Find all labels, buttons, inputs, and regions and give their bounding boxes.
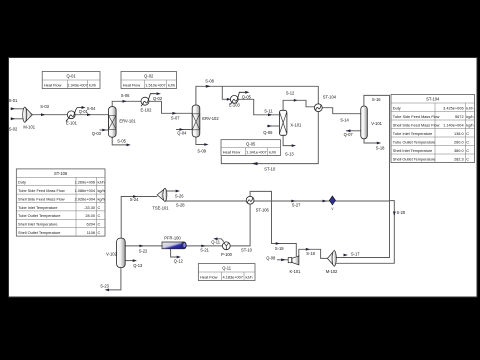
arrow on S-21 [201, 245, 205, 248]
arrow on S-11 [268, 113, 272, 116]
arrow on S-04 [87, 113, 91, 116]
wire S-01 [11, 108, 25, 110]
wire Q-06 into X-101 [267, 125, 280, 127]
wire S-23 V-102 bottom [109, 268, 121, 290]
svg-text:1.086e+004: 1.086e+004 [75, 189, 96, 193]
svg-text:1.341e+007: 1.341e+007 [246, 151, 266, 155]
svg-text:Q-05: Q-05 [242, 94, 252, 99]
svg-text:C: C [466, 149, 469, 153]
svg-text:Q-04: Q-04 [177, 130, 187, 135]
wire S-08 ERV-102 top to ST-104 [196, 86, 318, 105]
svg-text:V-101: V-101 [371, 121, 382, 126]
svg-text:ST-10: ST-10 [241, 247, 253, 252]
table Q-02 [121, 72, 177, 89]
svg-text:138.0: 138.0 [454, 132, 464, 136]
arrow on S-03 [41, 113, 45, 116]
svg-text:TSE-101: TSE-101 [152, 205, 169, 210]
svg-text:S-05: S-05 [117, 139, 126, 144]
heat exchanger E-101 [66, 108, 82, 126]
svg-text:PFR-100: PFR-100 [164, 236, 181, 241]
svg-text:Shell Outlet Temperature: Shell Outlet Temperature [393, 157, 435, 161]
svg-text:Q-03: Q-03 [92, 131, 102, 136]
svg-text:28.00: 28.00 [85, 214, 95, 218]
svg-text:X-101: X-101 [290, 122, 302, 127]
svg-text:S-12: S-12 [286, 90, 295, 95]
svg-text:S-27: S-27 [292, 203, 301, 208]
svg-text:6204: 6204 [86, 223, 95, 227]
svg-text:2.926e+004: 2.926e+004 [75, 197, 96, 201]
arrow S-05 head [127, 144, 131, 147]
svg-text:S-06: S-06 [121, 93, 130, 98]
arrow on S-17 [344, 254, 348, 257]
wire S-21 PFR to pump [186, 245, 222, 247]
svg-text:S-23: S-23 [100, 284, 109, 289]
svg-text:kg/h: kg/h [98, 197, 105, 201]
separator V-101 [361, 106, 383, 139]
wire S-20 branch to mixer [334, 201, 394, 264]
svg-text:S-26: S-26 [175, 194, 184, 199]
svg-text:Heat Flow: Heat Flow [123, 83, 141, 87]
svg-text:Heat Flow: Heat Flow [223, 151, 241, 155]
wire ST-10 ST-104 shell outlet [221, 112, 318, 164]
table ST-104 [391, 95, 475, 163]
svg-text:S-02: S-02 [9, 127, 18, 132]
arrow on S-24 [133, 195, 137, 198]
svg-text:S-08: S-08 [205, 78, 214, 83]
svg-text:S-18: S-18 [306, 251, 315, 256]
wire S-06 ERV-101 top to E-102 [112, 101, 141, 107]
arrow Q-13 head [133, 259, 137, 262]
wire S-02 [11, 118, 25, 120]
wire S-14 ST-104 to V-101 [322, 108, 361, 114]
svg-text:P-100: P-100 [221, 252, 233, 257]
svg-text:C: C [98, 223, 101, 227]
svg-text:V-102: V-102 [106, 251, 117, 256]
svg-text:Duty: Duty [18, 181, 26, 185]
svg-text:Q-12: Q-12 [174, 259, 184, 264]
wire S-11 E-103 to X-101 [238, 99, 279, 115]
wire S-07 E-102 to ERV-102 [149, 101, 192, 113]
wire S-05 ERV-101 bottom [112, 137, 127, 145]
svg-text:1106: 1106 [87, 231, 95, 235]
pump P-100 [221, 242, 233, 257]
svg-text:S-18: S-18 [376, 146, 385, 151]
svg-text:260.0: 260.0 [454, 140, 464, 144]
valve VLV diamond [329, 196, 335, 211]
svg-text:ERV-101: ERV-101 [119, 119, 136, 124]
arrow on S-19 [276, 242, 280, 245]
wire ST-10 pump to ST-106 bottom [230, 204, 250, 246]
svg-text:S-17: S-17 [351, 252, 360, 257]
vessel V-102 [106, 238, 125, 268]
svg-text:1.343e+007: 1.343e+007 [67, 83, 87, 87]
svg-text:S-20: S-20 [397, 210, 406, 215]
svg-text:Shell Side Feed Mass Flow: Shell Side Feed Mass Flow [18, 197, 65, 201]
svg-text:380.0: 380.0 [454, 149, 464, 153]
svg-text:Tube Inlet Temperature: Tube Inlet Temperature [18, 206, 58, 210]
svg-text:Tube Inlet Temperature: Tube Inlet Temperature [393, 132, 433, 136]
svg-text:Tube Outlet Temperature: Tube Outlet Temperature [393, 140, 436, 144]
wire Q-12 from PFR [171, 249, 177, 257]
arrow Q-04 head [180, 128, 184, 131]
svg-text:kJ/h: kJ/h [466, 106, 473, 110]
svg-text:Heat Flow: Heat Flow [200, 275, 218, 279]
svg-text:S-13: S-13 [285, 151, 294, 156]
svg-text:-33.30: -33.30 [84, 206, 95, 210]
column ERV-102 [192, 105, 219, 137]
arrow on S-06 [123, 100, 127, 103]
arrow Q-07 head [346, 129, 351, 132]
svg-text:kJ/h: kJ/h [89, 83, 96, 87]
wire S-18 V-101 bottom [364, 139, 377, 143]
svg-text:ST-106: ST-106 [54, 171, 68, 176]
svg-text:C: C [466, 140, 469, 144]
svg-text:S-01: S-01 [9, 98, 18, 103]
svg-text:Tube Side Feed Mass Flow: Tube Side Feed Mass Flow [393, 115, 440, 119]
table Q-01 [42, 72, 100, 89]
arrow Q-05 head [245, 91, 249, 94]
svg-text:Q-11: Q-11 [222, 266, 232, 271]
arrow Q-02 head [157, 92, 161, 95]
svg-text:S-16: S-16 [372, 97, 381, 102]
svg-text:282.3: 282.3 [454, 157, 464, 161]
svg-text:1.269e+006: 1.269e+006 [75, 181, 95, 185]
svg-text:S-07: S-07 [171, 115, 180, 120]
svg-text:S-11: S-11 [264, 109, 273, 114]
svg-text:K-101: K-101 [290, 269, 302, 274]
arrow ST-10 left head [252, 162, 258, 165]
mixer M-102 [326, 251, 338, 274]
wire E-103 feed stub [222, 86, 230, 99]
reactor X-101 [279, 110, 302, 135]
svg-text:ERV-102: ERV-102 [202, 116, 219, 121]
svg-text:kJ/h: kJ/h [168, 83, 175, 87]
svg-text:M-102: M-102 [326, 269, 338, 274]
svg-text:S-04: S-04 [87, 106, 96, 111]
svg-text:C: C [98, 214, 101, 218]
svg-text:S-24: S-24 [130, 197, 139, 202]
wire S-28 long line TEE-101 to right [165, 200, 390, 202]
wire S-22 V-102 to PFR [125, 245, 162, 247]
svg-text:Q-11: Q-11 [211, 240, 221, 245]
arrow Q-11 head [213, 237, 217, 240]
svg-text:1.510e+007: 1.510e+007 [145, 83, 165, 87]
svg-text:Shell Inlet Temperature: Shell Inlet Temperature [393, 149, 432, 153]
svg-text:E-101: E-101 [66, 121, 78, 126]
svg-text:Shell Outlet Temperature: Shell Outlet Temperature [18, 231, 60, 235]
svg-text:Heat Flow: Heat Flow [44, 83, 62, 87]
svg-text:Q-02: Q-02 [153, 96, 163, 101]
svg-text:4.183e+007: 4.183e+007 [222, 275, 242, 279]
heat exchanger E-102 [141, 94, 157, 113]
arrow on S-18 [306, 248, 310, 251]
wire S-24 V-102 top to TEE-101 [121, 197, 157, 239]
svg-text:S-03: S-03 [40, 104, 49, 109]
svg-text:C: C [98, 206, 101, 210]
svg-text:C: C [466, 157, 469, 161]
svg-text:C: C [466, 132, 469, 136]
svg-text:Q-02: Q-02 [144, 74, 154, 79]
svg-text:ST-10: ST-10 [264, 166, 276, 171]
svg-text:S-22: S-22 [139, 248, 148, 253]
svg-text:S-21: S-21 [200, 248, 209, 253]
svg-text:E-102: E-102 [141, 107, 153, 112]
svg-text:ST-106: ST-106 [256, 208, 270, 213]
svg-text:kg/h: kg/h [466, 123, 473, 127]
wire S-12 X-101 top to ST-104 [283, 100, 314, 110]
svg-text:Q-06: Q-06 [263, 130, 273, 135]
wire S-26 TEE-101 out [165, 190, 176, 192]
wire S-18 K-101 to M-102 [299, 249, 328, 258]
flowsheet page [9, 58, 478, 298]
wire S-16 V-101 top down to mixer [334, 95, 389, 257]
wire S-19 ST-106 top loop to K-101 [250, 191, 296, 256]
svg-text:Q-08: Q-08 [266, 256, 276, 261]
svg-text:M-101: M-101 [23, 124, 35, 129]
arrow on S-08 [206, 85, 211, 88]
table Q-05 [221, 140, 281, 156]
mixer M-101 [23, 107, 36, 129]
svg-text:S-14: S-14 [340, 118, 349, 123]
arrow S-20 down [393, 212, 396, 217]
arrow Q-12 head [177, 256, 181, 259]
arrow Q-08 glyph [281, 258, 285, 261]
reactor PFR-100 [162, 236, 186, 249]
svg-text:Q-05: Q-05 [246, 142, 256, 147]
svg-text:5672: 5672 [455, 115, 464, 119]
table ST-106 [16, 169, 105, 236]
arrow S-26 head [176, 190, 180, 193]
wire S-04 [75, 114, 109, 116]
wire Q-04 into ERV-102 [176, 129, 192, 131]
svg-text:Q-07: Q-07 [344, 132, 354, 137]
arrow S-13 head [292, 144, 296, 147]
heat exchanger ST-106 [246, 196, 269, 212]
wire Q-03 into ERV-101 [100, 129, 109, 131]
svg-text:Shell Side Feed Mass Flow: Shell Side Feed Mass Flow [393, 123, 440, 127]
svg-text:Tube Side Feed Mass Flow: Tube Side Feed Mass Flow [18, 189, 65, 193]
arrow S-02 feed [11, 117, 15, 120]
arrow on S-27 [291, 200, 295, 203]
arrow S-18b head [377, 142, 381, 145]
wire Q-07 at V-101 [346, 130, 361, 132]
arrow on S-12 [294, 99, 298, 102]
svg-text:ST-104: ST-104 [323, 95, 337, 100]
svg-text:kg/h: kg/h [98, 189, 105, 193]
heat exchanger E-103 [229, 92, 245, 107]
svg-text:kg/h: kg/h [466, 115, 473, 119]
svg-text:1.140e+004: 1.140e+004 [443, 123, 464, 127]
heat exchanger ST-104 [314, 95, 336, 112]
arrow S-09 head [204, 143, 208, 146]
arrow S-01 feed [11, 107, 15, 110]
svg-text:kJ/h: kJ/h [246, 275, 253, 279]
column ERV-101 [109, 107, 137, 138]
arrow Q-03 head [102, 129, 106, 132]
svg-text:Duty: Duty [393, 106, 401, 110]
wire Q-13 from V-102 [125, 260, 133, 262]
arrow Q-06 head [268, 125, 272, 128]
svg-text:C: C [98, 231, 101, 235]
svg-text:S-28: S-28 [176, 203, 185, 208]
table Q-11 [198, 264, 255, 281]
arrow E-103 feed head [227, 98, 231, 101]
arrow on S-28 left of valve [323, 200, 328, 203]
svg-text:Q-01: Q-01 [67, 74, 77, 79]
svg-text:kJ/h: kJ/h [269, 151, 276, 155]
svg-text:kJ/h: kJ/h [98, 181, 105, 185]
compressor K-101 [288, 256, 301, 274]
arrow on S-22 [139, 245, 143, 248]
svg-text:Q-13: Q-13 [133, 263, 143, 268]
arrow S-23 head [105, 289, 109, 292]
wire S-03 [32, 114, 68, 116]
wire S-13 X-101 bottom [283, 135, 292, 145]
arrow on S-07 [172, 112, 176, 115]
svg-text:Shell Inlet Temperature: Shell Inlet Temperature [18, 223, 57, 227]
wire Q-11 into pump [217, 239, 224, 242]
svg-text:E-103: E-103 [229, 103, 241, 108]
wire S-09 ERV-102 bottom [196, 137, 205, 145]
wire Q-08 into K-101 [277, 259, 288, 261]
svg-text:3.425e+006: 3.425e+006 [443, 106, 463, 110]
svg-text:S-19: S-19 [275, 246, 284, 251]
svg-text:S-09: S-09 [197, 149, 206, 154]
tee TEE-101 [152, 189, 169, 211]
svg-text:Tube Outlet Temperature: Tube Outlet Temperature [18, 214, 61, 218]
svg-text:ST-104: ST-104 [426, 97, 440, 102]
arrow Q-01 head [82, 106, 86, 109]
